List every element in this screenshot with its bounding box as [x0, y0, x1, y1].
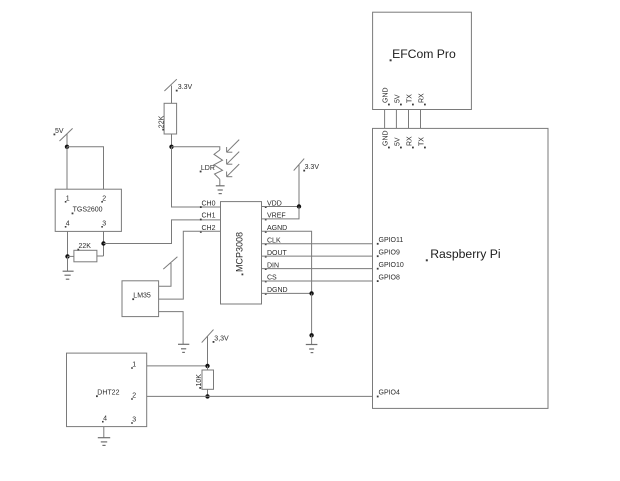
- wire node A to TGS2600 pin 1: [66, 147, 68, 189]
- wire node G to ground: [311, 335, 313, 344]
- ground (MCP3008 digital): [306, 345, 318, 353]
- svg-text:EFCom Pro: EFCom Pro: [392, 47, 456, 61]
- wire node B to ground: [67, 256, 69, 271]
- wire AGND to node F: [261, 231, 312, 293]
- svg-text:22K: 22K: [159, 115, 166, 128]
- junction node E: [297, 204, 301, 208]
- supply 3.3V (DHT22 pull-up): [202, 330, 229, 343]
- svg-text:Raspberry Pi: Raspberry Pi: [430, 247, 500, 261]
- wire DHT22 pin 2 to node I: [147, 395, 208, 397]
- pin AGND: [265, 225, 287, 233]
- svg-text:MCP3008: MCP3008: [235, 232, 245, 272]
- supply 5V: [54, 128, 73, 141]
- svg-text:GPIO10: GPIO10: [379, 262, 404, 269]
- wire CS to GPIO8: [261, 280, 373, 282]
- pin GND (EFCom): [383, 87, 390, 105]
- resistor 22K (pull-up, vertical): [159, 103, 177, 134]
- photoresistor LDR: [200, 150, 223, 179]
- svg-text:3,3V: 3,3V: [214, 335, 229, 342]
- wire TGS2600 pin 4 to node B: [67, 231, 69, 256]
- pin number 2 (TGS2600): [101, 196, 106, 203]
- pin RX (EFCom): [419, 93, 426, 105]
- humidity sensor DHT22: [67, 353, 147, 427]
- svg-text:3.3V: 3.3V: [178, 84, 193, 91]
- GSM module EFCom Pro: [373, 12, 472, 109]
- resistor 10K (pull-up): [196, 366, 214, 397]
- pin VREF: [265, 213, 286, 221]
- pin CLK: [265, 238, 281, 246]
- pin GPIO11 (RPi): [377, 237, 404, 245]
- wire DOUT to GPIO9: [261, 255, 373, 257]
- pin DGND: [265, 287, 288, 295]
- pin TX (EFCom): [407, 94, 414, 106]
- pin DOUT: [265, 250, 288, 258]
- svg-text:5V: 5V: [55, 128, 64, 135]
- wire DGND to node F: [261, 292, 312, 294]
- wire node D to MCP3008 CH0: [172, 147, 221, 207]
- svg-text:10K: 10K: [196, 374, 203, 387]
- pin GND (RPi): [383, 130, 390, 148]
- wire DHT22 pin 4 to ground: [103, 427, 105, 438]
- ground (LM35): [178, 344, 189, 352]
- wire TGS2600 pin 3 to node C: [103, 231, 105, 256]
- wire 3.3V to node E: [298, 165, 300, 207]
- junction node B: [65, 254, 69, 258]
- pin CH2: [200, 225, 216, 233]
- wire EFCom RX to RPi TX: [420, 109, 422, 128]
- pin GPIO4 (RPi): [377, 390, 400, 398]
- wire node C to MCP3008 CH1: [104, 220, 221, 244]
- pin CH0: [200, 200, 216, 208]
- pin number 4 (DHT22): [102, 415, 107, 422]
- svg-text:TX: TX: [407, 94, 414, 103]
- svg-text:CH1: CH1: [202, 213, 216, 220]
- ground (TGS2600): [63, 271, 74, 279]
- pin number 3 (DHT22): [131, 417, 136, 424]
- pin number 4 (TGS2600): [65, 221, 70, 228]
- supply 3.3V (MCP3008): [294, 159, 320, 172]
- wire CLK to GPIO11: [261, 243, 373, 245]
- wire LM35 pin 3 to ground: [159, 312, 184, 345]
- pin number 1 (TGS2600): [65, 196, 70, 203]
- svg-text:CH0: CH0: [202, 200, 216, 207]
- wire node D to LDR: [172, 147, 220, 150]
- svg-text:RX: RX: [419, 93, 426, 103]
- svg-text:LM35: LM35: [133, 293, 151, 300]
- supply 3.3V (LDR divider): [164, 79, 192, 91]
- temperature sensor LM35: [122, 281, 159, 317]
- svg-text:5V: 5V: [395, 137, 402, 146]
- junction node I: [205, 394, 209, 398]
- wire node F to node G: [311, 293, 313, 335]
- junction node H: [205, 364, 209, 368]
- wire EFCom 5V to RPi 5V: [395, 109, 397, 128]
- wire LDR to ground: [219, 179, 221, 186]
- pin VDD: [265, 200, 282, 208]
- pin GPIO8 (RPi): [377, 274, 400, 282]
- wire EFCom GND to RPi GND: [384, 109, 386, 128]
- wire EFCom TX to RPi RX: [408, 109, 410, 128]
- pin number 1 (DHT22): [131, 362, 136, 369]
- svg-text:1: 1: [132, 362, 136, 369]
- pin CH1: [200, 213, 216, 221]
- junction node D: [169, 145, 173, 149]
- gas sensor TGS2600: [55, 189, 121, 231]
- wire DIN to GPIO10: [261, 268, 373, 270]
- svg-text:GND: GND: [383, 87, 390, 103]
- pin GPIO9 (RPi): [377, 249, 400, 257]
- svg-text:GPIO8: GPIO8: [379, 274, 401, 281]
- pin number 3 (TGS2600): [101, 221, 106, 228]
- light arrows (LDR): [227, 140, 240, 177]
- svg-text:TX: TX: [419, 137, 426, 146]
- supply V+ (LM35): [163, 257, 177, 269]
- svg-text:LDR: LDR: [201, 165, 215, 172]
- resistor 22K (load, horizontal): [68, 243, 104, 262]
- wire node A to TGS2600 pin 2: [67, 147, 104, 189]
- pin TX (RPi): [419, 137, 426, 149]
- svg-text:RX: RX: [407, 136, 414, 146]
- wire LM35 pin 1 to supply: [159, 263, 171, 286]
- wire LM35 pin 2 to MCP3008 CH2: [159, 231, 221, 299]
- svg-text:3.3V: 3.3V: [305, 164, 320, 171]
- wire DHT22 pin 1 to node H: [147, 365, 208, 367]
- svg-text:GND: GND: [383, 130, 390, 146]
- svg-text:GPIO4: GPIO4: [379, 390, 401, 397]
- svg-text:5V: 5V: [395, 94, 402, 103]
- wire VDD to node E: [261, 206, 299, 208]
- svg-text:4: 4: [103, 415, 107, 422]
- wire VREF to node E: [261, 207, 299, 219]
- wire 3.3V to resistor 22K: [171, 86, 173, 104]
- pin RX (RPi): [407, 136, 414, 148]
- junction node G: [309, 333, 313, 337]
- junction node F: [309, 291, 313, 295]
- pin 5V (RPi): [395, 137, 402, 148]
- wire 22K to node D: [171, 134, 173, 147]
- ground (DHT22): [98, 438, 110, 446]
- svg-text:GPIO11: GPIO11: [379, 237, 404, 244]
- ground (LDR): [216, 186, 225, 194]
- junction node C: [101, 241, 105, 245]
- svg-text:TGS2600: TGS2600: [73, 207, 103, 214]
- junction node A: [65, 145, 69, 149]
- pin GPIO10 (RPi): [377, 262, 404, 270]
- wire 3.3V to node H: [207, 336, 209, 366]
- svg-text:3: 3: [132, 417, 136, 424]
- pin 5V (EFCom): [395, 94, 402, 105]
- svg-text:DHT22: DHT22: [97, 390, 119, 397]
- wire node I to GPIO4: [208, 395, 373, 397]
- ADC MCP3008 U1: [221, 202, 262, 304]
- svg-text:2: 2: [132, 393, 136, 400]
- computer Raspberry Pi: [373, 128, 549, 408]
- wire 5V to node A: [66, 134, 68, 147]
- pin number 2 (DHT22): [131, 393, 136, 400]
- pin CS: [265, 275, 277, 283]
- pin DIN: [265, 262, 279, 270]
- svg-text:GPIO9: GPIO9: [379, 249, 401, 256]
- svg-text:22K: 22K: [79, 243, 92, 250]
